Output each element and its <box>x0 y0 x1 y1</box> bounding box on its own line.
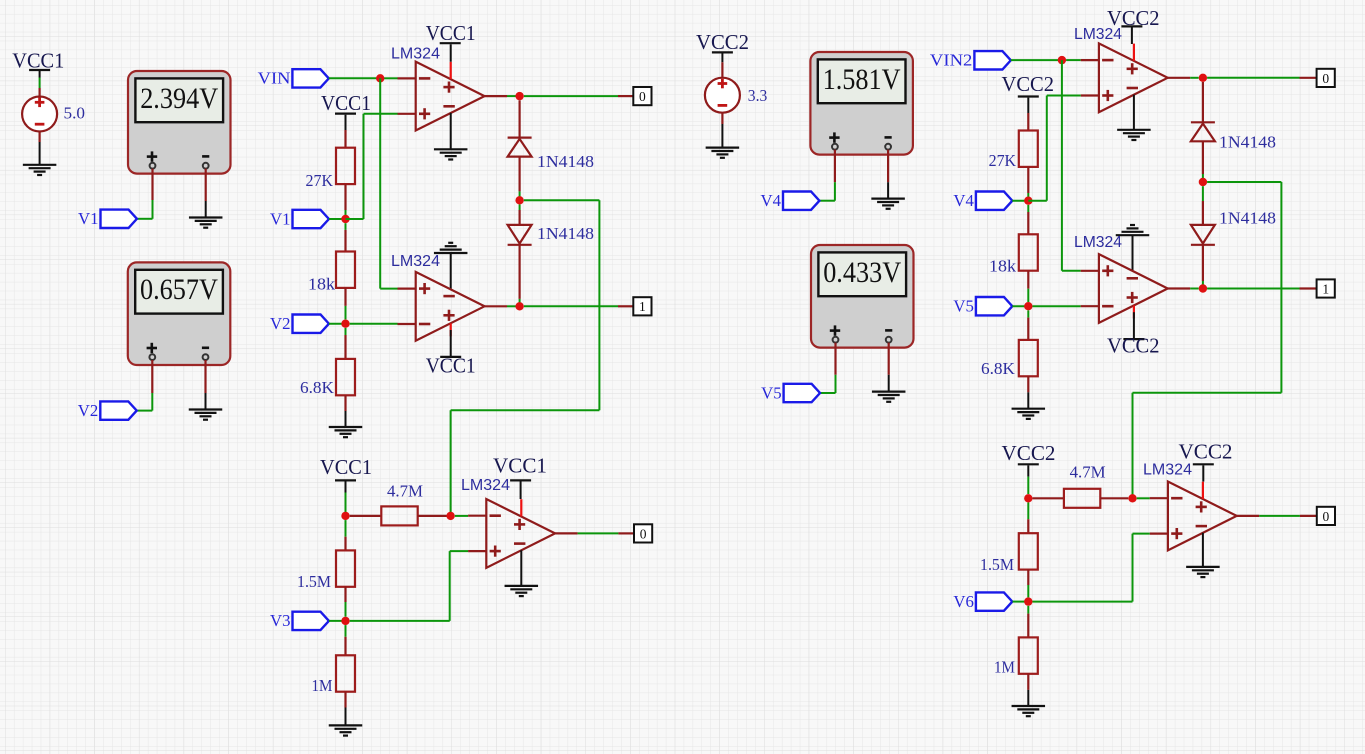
wire U1 output to terminal 0 <box>507 95 633 97</box>
resistor R10 4.7M feedback <box>1033 463 1129 508</box>
wire node A to D2 <box>519 205 521 225</box>
wire node D to D4 <box>1202 186 1204 225</box>
op-amp U4 LM324 <box>1074 26 1190 112</box>
wire U4 V- to ground <box>1133 95 1135 130</box>
resistor R12 1M <box>994 637 1038 676</box>
svg-text:1: 1 <box>639 299 646 314</box>
node C U3 inverting input <box>446 512 454 520</box>
resistor R6 1M <box>312 655 356 695</box>
wire D4 to U5 output node <box>1202 245 1204 285</box>
wire R5 to node V3 <box>344 587 346 617</box>
ground above U2 <box>434 243 468 253</box>
terminal 0 lower left <box>634 524 652 542</box>
wire node C to U3 <box>455 515 468 517</box>
resistor R5 1.5M <box>297 550 355 591</box>
svg-text:VCC1: VCC1 <box>426 21 476 45</box>
svg-text:VIN2: VIN2 <box>930 51 973 70</box>
wire R3 to ground <box>344 395 346 427</box>
wire VIN2 down to U5 input <box>1062 60 1081 271</box>
diode D4 1N4148 <box>1191 209 1276 245</box>
resistor R1 27K <box>306 148 356 191</box>
svg-text:V6: V6 <box>953 592 974 611</box>
svg-text:V5: V5 <box>953 297 974 316</box>
wire VIN down to U2 input <box>380 78 397 288</box>
wire node F to U6 <box>1137 497 1150 499</box>
ground below U6 <box>1186 567 1220 577</box>
svg-text:0.433V: 0.433V <box>823 256 901 289</box>
wire VM2 minus to ground <box>204 360 206 409</box>
wire VM3 minus to ground <box>887 150 889 199</box>
ground below U4 <box>1117 130 1151 140</box>
svg-text:LM324: LM324 <box>461 477 510 494</box>
wire V1 flag to node <box>329 218 346 220</box>
svg-text:VCC1: VCC1 <box>426 354 476 378</box>
svg-text:VCC1: VCC1 <box>321 91 371 115</box>
wire node V1 to R2 <box>345 223 347 251</box>
wire ground to U2 V- <box>450 253 452 289</box>
node U2 output junction <box>515 302 523 310</box>
node U4 output junction <box>1199 74 1207 82</box>
ground below B2 <box>706 148 740 158</box>
wire U2 output to terminal 1 <box>507 305 633 307</box>
wire R6 to ground <box>344 692 346 726</box>
net flag V2 at VM2 <box>78 401 137 420</box>
power label VCC1 above U3 <box>493 454 547 481</box>
svg-text:4.7M: 4.7M <box>1070 463 1106 482</box>
node VIN2 junction <box>1058 56 1066 64</box>
power label VCC2 below U5 <box>1107 334 1160 358</box>
terminal 0 upper left <box>633 87 651 105</box>
svg-text:0: 0 <box>640 526 647 541</box>
wire node V6 to R12 <box>1027 606 1029 638</box>
power label VCC2 above U6 <box>1179 439 1233 464</box>
svg-text:0: 0 <box>1322 71 1329 86</box>
svg-text:1M: 1M <box>994 657 1015 676</box>
wire U6 V- to ground <box>1202 533 1204 567</box>
svg-text:3.3: 3.3 <box>748 86 768 105</box>
wire R9 to ground <box>1027 376 1029 408</box>
node V1 <box>341 215 349 223</box>
svg-text:LM324: LM324 <box>1143 461 1192 478</box>
op-amp U3 LM324 <box>461 477 578 568</box>
wire U1 V- to ground <box>450 113 452 149</box>
wire VCC1 to node B <box>345 482 347 513</box>
terminal 1 right <box>1317 279 1335 297</box>
node U1 output junction <box>515 92 523 100</box>
net flag V4 chain <box>953 191 1012 210</box>
node B divider top <box>341 512 349 520</box>
svg-text:V2: V2 <box>270 314 291 333</box>
ground at VM4 <box>872 392 906 402</box>
wire V3 flag to node <box>329 620 346 622</box>
wire VM4 minus to ground <box>888 343 890 392</box>
wire D3 to node D <box>1202 141 1204 178</box>
node V2 <box>341 320 349 328</box>
svg-text:1N4148: 1N4148 <box>537 224 594 243</box>
wire VCC2 to node E <box>1027 465 1029 494</box>
voltmeter VM3 1.581V <box>810 52 913 155</box>
wire R12 to ground <box>1027 674 1029 706</box>
wire VCC2 bar to B2 <box>721 54 723 78</box>
ground below R3 <box>329 427 363 437</box>
node V5 <box>1024 302 1032 310</box>
svg-text:V1: V1 <box>78 209 99 228</box>
wire node V2 to R3 <box>345 328 347 359</box>
diode D3 1N4148 <box>1191 122 1276 151</box>
svg-text:1.5M: 1.5M <box>980 555 1014 574</box>
node VIN junction <box>376 74 384 82</box>
wire VM2 plus to V2 flag <box>137 360 153 411</box>
power label VCC1 left of U3 <box>320 455 372 480</box>
wire B1 to ground <box>38 131 40 164</box>
node V6 <box>1024 597 1032 605</box>
svg-text:1.5M: 1.5M <box>297 572 331 591</box>
op-amp U6 LM324 <box>1143 461 1259 550</box>
wire VCC1 to R1 <box>345 115 347 148</box>
ground at VM1 <box>189 218 223 228</box>
svg-text:1: 1 <box>1322 281 1329 296</box>
wire VCC2 to R7 <box>1027 98 1029 131</box>
wire R11 to node V6 <box>1027 570 1029 598</box>
voltmeter VM4 0.433V <box>811 245 914 348</box>
net flag VIN2 <box>930 51 1011 70</box>
wire V5 flag to node <box>1012 305 1028 307</box>
wire U4 output to terminal 0 <box>1190 77 1316 79</box>
wire node V4 to U4 non-inverting input <box>1028 96 1080 201</box>
terminal 0 upper right <box>1317 69 1335 87</box>
node A diode midpoint <box>515 196 523 204</box>
wire VM1 plus to V1 flag <box>137 169 153 219</box>
svg-text:V1: V1 <box>270 209 291 228</box>
node V4 <box>1024 197 1032 205</box>
svg-text:VCC2: VCC2 <box>1107 334 1160 358</box>
node F U6 inverting input <box>1128 494 1136 502</box>
svg-text:27K: 27K <box>989 151 1017 170</box>
resistor R4 4.7M feedback <box>350 481 448 525</box>
svg-text:0: 0 <box>639 89 646 104</box>
ground below R9 <box>1012 409 1046 419</box>
wire VM1 minus to ground <box>205 169 207 218</box>
resistor R3 6.8K <box>300 359 355 397</box>
svg-text:LM324: LM324 <box>1074 26 1122 43</box>
wire node V4 to R8 <box>1027 205 1029 234</box>
ground below R12 <box>1012 706 1046 716</box>
net flag V3 <box>270 611 329 630</box>
svg-text:VCC1: VCC1 <box>320 455 372 479</box>
svg-text:1N4148: 1N4148 <box>1219 132 1276 151</box>
power label VCC1 above resistor chain <box>321 91 371 115</box>
wire VM4 plus to V5 flag <box>820 343 836 393</box>
resistor R7 27K <box>989 131 1038 171</box>
wire D2 to U2 output node <box>518 245 520 303</box>
voltmeter VM2 0.657V <box>128 262 231 365</box>
voltmeter VM1 2.394V <box>128 71 231 174</box>
net flag V5 chain <box>953 297 1012 316</box>
svg-text:1N4148: 1N4148 <box>1219 209 1276 228</box>
wire node D feedback to U6 <box>1133 182 1282 495</box>
wire VCC2 to U6 V+ <box>1202 465 1204 481</box>
net flag VIN <box>258 69 329 88</box>
wire U3 output to terminal 0 <box>578 532 634 534</box>
net flag V4 at VM3 <box>761 191 820 210</box>
svg-text:6.8K: 6.8K <box>981 359 1016 378</box>
svg-text:V4: V4 <box>761 191 782 210</box>
svg-text:VCC2: VCC2 <box>696 30 749 54</box>
svg-text:VCC2: VCC2 <box>1002 72 1055 96</box>
svg-text:27K: 27K <box>306 171 334 190</box>
svg-text:18k: 18k <box>308 275 336 294</box>
wire VM3 plus to V4 flag <box>819 150 835 201</box>
svg-text:V4: V4 <box>953 191 974 210</box>
ground below B1 <box>23 165 57 175</box>
wire D1 to node A <box>518 157 520 197</box>
svg-text:1N4148: 1N4148 <box>537 152 594 171</box>
wire node V6 to U6 non-inverting input <box>1033 534 1150 602</box>
svg-text:0: 0 <box>1323 509 1330 524</box>
svg-text:VCC1: VCC1 <box>493 454 547 478</box>
wire R1 to node V1 <box>344 184 346 216</box>
wire U5 output to terminal 1 <box>1190 288 1316 290</box>
power label VCC2 above U4 <box>1107 6 1160 30</box>
node V3 <box>341 617 349 625</box>
svg-text:VIN: VIN <box>258 69 291 88</box>
svg-text:V5: V5 <box>761 383 782 402</box>
net flag V1 at VM1 <box>78 209 137 228</box>
resistor R8 18k <box>989 234 1038 275</box>
svg-text:5.0: 5.0 <box>64 103 86 122</box>
wire B2 to ground <box>721 113 723 148</box>
wire U3 V- to ground <box>520 550 522 586</box>
wire node V3 to R6 <box>345 625 347 655</box>
svg-text:VCC2: VCC2 <box>1179 439 1233 463</box>
wire U2 V+ to VCC1 <box>450 330 452 356</box>
diode D2 1N4148 <box>508 224 594 245</box>
svg-text:LM324: LM324 <box>391 253 440 270</box>
ground at VM3 <box>871 199 905 209</box>
node E divider top <box>1024 494 1032 502</box>
wire VIN to U1 inverting input <box>329 77 398 79</box>
terminal 1 left <box>633 297 651 315</box>
wire V4 flag to node <box>1012 200 1028 202</box>
svg-text:2.394V: 2.394V <box>140 82 218 115</box>
wire R8 to node V5 <box>1027 271 1029 302</box>
power label VCC2 above right chain <box>1002 72 1055 97</box>
wire R7 to node V4 <box>1027 167 1029 198</box>
svg-text:1.581V: 1.581V <box>823 63 901 96</box>
wire VCC1 to U3 V+ <box>520 482 522 500</box>
resistor R9 6.8K <box>981 340 1038 378</box>
svg-text:1M: 1M <box>312 676 333 695</box>
ground below U3 <box>505 586 539 596</box>
op-amp U5 LM324 <box>1074 234 1190 323</box>
svg-text:18k: 18k <box>989 256 1017 275</box>
wire U4 output to D3 <box>1202 82 1204 122</box>
wire node V2 to U2 input <box>350 323 398 325</box>
ground at VM2 <box>189 410 223 420</box>
node U5 output junction <box>1199 284 1207 292</box>
wire node A feedback to U3 <box>451 200 600 512</box>
power label VCC1 above U1 <box>426 21 476 45</box>
power source B1 VCC1 5.0V <box>12 49 85 132</box>
svg-text:4.7M: 4.7M <box>387 481 423 500</box>
wire U5 V+ to VCC2 <box>1133 312 1135 338</box>
power label VCC1 below U2 <box>426 354 476 378</box>
wire node V5 to R9 <box>1027 310 1029 340</box>
wire V2 flag to node <box>329 323 346 325</box>
wire node E to R11 <box>1027 503 1029 534</box>
wire VCC2 to U4 V+ <box>1131 28 1133 45</box>
node D diode midpoint <box>1199 178 1207 186</box>
wire R2 to node V2 <box>344 288 346 320</box>
wire node B to R5 <box>345 520 347 550</box>
power label VCC2 left of U6 <box>1002 441 1056 465</box>
wire node V1 to U1 non-inverting input <box>346 114 398 219</box>
diode D1 1N4148 <box>508 138 594 171</box>
wire ground to U5 V- <box>1132 235 1134 271</box>
ground below U1 <box>434 149 468 159</box>
power source B2 VCC2 3.3V <box>696 30 767 113</box>
resistor R11 1.5M <box>980 533 1038 574</box>
terminal 0 lower right <box>1317 507 1335 525</box>
svg-text:6.8K: 6.8K <box>300 378 335 397</box>
wire node V5 to U5 input <box>1033 305 1081 307</box>
wire VCC1 bar to B1 <box>39 71 41 97</box>
svg-text:LM324: LM324 <box>1074 234 1122 251</box>
net flag V2 chain <box>270 314 329 333</box>
ground above U5 <box>1116 225 1150 235</box>
wire V6 flag to node <box>1013 601 1029 603</box>
op-amp U2 LM324 <box>391 253 507 341</box>
wire U1 output to D1 <box>518 100 520 137</box>
op-amp U1 LM324 <box>391 45 507 130</box>
svg-text:V2: V2 <box>78 401 99 420</box>
wire node V3 to U3 non-inverting input <box>350 551 468 621</box>
resistor R2 18k <box>308 252 355 294</box>
wire VCC1 to U1 V+ <box>450 44 452 62</box>
svg-text:VCC2: VCC2 <box>1002 441 1056 465</box>
wire VIN2 to U4 inverting input <box>1011 59 1081 61</box>
wire U6 output to terminal 0 <box>1259 515 1317 517</box>
net flag V1 chain <box>270 209 329 228</box>
svg-text:LM324: LM324 <box>391 45 440 62</box>
svg-text:V3: V3 <box>270 611 291 630</box>
net flag V6 <box>953 592 1012 611</box>
ground below R6 <box>329 725 363 735</box>
net flag V5 at VM4 <box>761 383 820 402</box>
svg-text:0.657V: 0.657V <box>140 273 218 306</box>
